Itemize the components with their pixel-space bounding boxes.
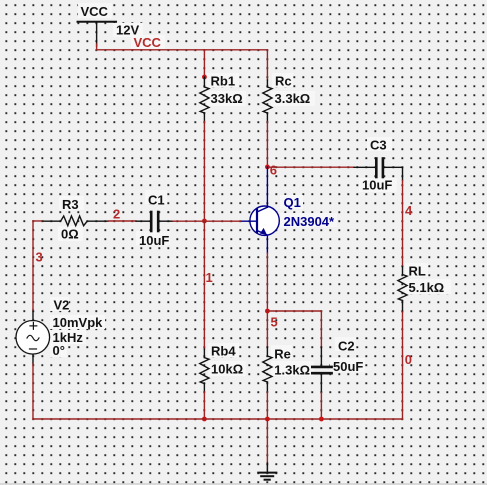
junction dot C2 bottom: [319, 417, 324, 422]
net label 2: [113, 206, 120, 221]
label C3: [370, 137, 387, 152]
svg-text:10uF: 10uF: [362, 178, 392, 193]
label 50uF: [333, 359, 363, 374]
capacitor C1: [136, 212, 173, 231]
wire rail to Rb1 top pin: [203, 50, 205, 77]
label Re: [274, 346, 291, 361]
transistor Q1: [240, 167, 279, 253]
junction dot at Rb1 top: [202, 75, 207, 80]
svg-text:0°: 0°: [52, 343, 64, 358]
wire node 5 to C2 branch: [267, 311, 321, 347]
svg-text:Q1: Q1: [284, 195, 301, 210]
wire R3 to C1, net 2: [108, 220, 136, 222]
label 2N3904*: [284, 214, 336, 229]
net label 5: [270, 315, 277, 330]
label RL: [408, 264, 425, 279]
svg-text:50uF: 50uF: [333, 359, 363, 374]
label 0Ω: [61, 226, 79, 241]
wire Rc to node 6: [266, 122, 268, 167]
resistor Rb4: [200, 349, 209, 392]
svg-text:5.1kΩ: 5.1kΩ: [408, 280, 444, 295]
wire emitter to node 5: [266, 253, 268, 311]
wire bottom rail: [33, 418, 403, 420]
svg-text:1.3kΩ: 1.3kΩ: [274, 363, 310, 378]
resistor Rb1: [200, 77, 209, 122]
label C2: [338, 338, 355, 353]
svg-text:C1: C1: [148, 192, 165, 207]
wire V2 top to node 3 corner: [33, 221, 43, 310]
wire C2 to bottom rail: [320, 393, 322, 420]
wire V2 bottom to rail: [32, 364, 34, 419]
svg-text:0Ω: 0Ω: [61, 226, 79, 241]
resistor RL: [398, 267, 407, 313]
svg-text:Rb4: Rb4: [211, 344, 236, 359]
net label 4: [405, 203, 413, 218]
label backgrounds: [50, 3, 451, 376]
resistor R3: [43, 216, 108, 226]
svg-text:R3: R3: [62, 197, 79, 212]
label 0 deg: [52, 343, 64, 358]
label 5.1kΩ: [408, 280, 444, 295]
label R3: [62, 197, 79, 212]
svg-text:10uF: 10uF: [139, 233, 169, 248]
capacitor C2: [312, 347, 331, 393]
svg-text:4: 4: [405, 203, 413, 218]
resistor Rc: [263, 80, 272, 122]
svg-text:0: 0: [405, 352, 412, 367]
wire Rb1 to node 1: [203, 121, 205, 220]
wire node 1 to Rb4: [203, 221, 205, 349]
label 10uF (C3): [362, 178, 392, 193]
svg-text:Rb1: Rb1: [211, 73, 236, 88]
label Rb1: [211, 73, 236, 88]
svg-text:3: 3: [35, 249, 42, 264]
svg-text:6: 6: [270, 162, 277, 177]
svg-text:1: 1: [205, 270, 212, 285]
svg-text:2: 2: [113, 206, 120, 221]
wire rail to Rc: [266, 50, 268, 80]
svg-text:3.3kΩ: 3.3kΩ: [275, 91, 311, 106]
svg-text:33kΩ: 33kΩ: [211, 91, 243, 106]
wire Rb4 to bottom rail: [203, 392, 205, 419]
label Q1: [284, 195, 301, 210]
svg-text:C2: C2: [338, 338, 355, 353]
svg-text:VCC: VCC: [81, 4, 109, 19]
label C1: [148, 192, 165, 207]
net label 1: [205, 270, 212, 285]
svg-text:Rc: Rc: [275, 73, 292, 88]
label 10uF (C1): [139, 233, 169, 248]
bottom window edge: [0, 483, 487, 484]
svg-text:V2: V2: [53, 297, 69, 312]
source V2: [16, 309, 50, 364]
junction dot Rb4 bottom: [202, 417, 207, 422]
wire RL to bottom rail: [401, 312, 403, 419]
svg-text:C3: C3: [370, 137, 387, 152]
junction dot node 1: [202, 219, 207, 224]
resistor Re: [263, 347, 272, 391]
wire C3 to RL: [401, 181, 403, 267]
label 10kΩ: [211, 361, 243, 376]
svg-text:VCC: VCC: [134, 35, 162, 50]
junction dot Re bottom: [265, 417, 270, 422]
wire VCC rail: [97, 44, 268, 50]
net label 0: [405, 352, 412, 367]
wire Re to bottom rail: [266, 392, 268, 419]
label 3.3kΩ: [275, 91, 311, 106]
label 1kHz: [52, 330, 83, 345]
svg-text:Re: Re: [274, 346, 291, 361]
ground: [258, 463, 276, 480]
junction dot node 5: [265, 309, 270, 314]
svg-text:5: 5: [270, 315, 277, 330]
wire bottom rail to ground: [266, 419, 268, 463]
wire node 5 to Re: [266, 311, 268, 347]
net label VCC (red): [134, 35, 162, 50]
svg-text:2N3904*: 2N3904*: [284, 214, 336, 229]
wire C1 to Q1 base: [173, 220, 241, 222]
label 1.3kΩ: [274, 363, 310, 378]
capacitor C3: [354, 159, 403, 181]
power symbol VCC: [78, 22, 117, 46]
wire node 6 to C3: [267, 166, 354, 168]
svg-text:RL: RL: [408, 264, 425, 279]
junction dot node 6: [265, 165, 270, 170]
label Rb4: [211, 344, 236, 359]
label 12V: [116, 22, 139, 37]
label Rc: [275, 73, 292, 88]
label 33kΩ: [211, 91, 243, 106]
svg-text:10mVpk: 10mVpk: [52, 315, 103, 330]
label V2: [53, 297, 69, 312]
net label 6: [270, 162, 277, 177]
label VCC (power symbol): [81, 4, 109, 19]
net label 3: [35, 249, 42, 264]
svg-text:10kΩ: 10kΩ: [211, 361, 243, 376]
label 10mVpk: [52, 315, 103, 330]
